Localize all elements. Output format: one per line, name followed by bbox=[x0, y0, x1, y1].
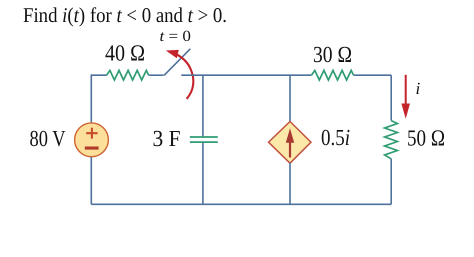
resistor R1 40-ohm bbox=[107, 70, 149, 80]
capacitor C1 3F plates bbox=[190, 136, 218, 138]
svg-text:30 Ω: 30 Ω bbox=[313, 42, 352, 67]
wire left side below source to bottom-left corner bbox=[90, 157, 92, 204]
wire capacitor branch bottom bbox=[202, 143, 204, 205]
current i arrow (red, downward) bbox=[405, 75, 407, 105]
svg-text:80 V: 80 V bbox=[30, 126, 66, 151]
wire from R1 to switch left contact bbox=[149, 74, 164, 76]
switch action red arc arrow bbox=[176, 54, 194, 99]
plus sign inside source bbox=[86, 128, 97, 139]
minus bar inside source bbox=[85, 147, 99, 150]
wire from R2 to top-right corner bbox=[354, 74, 392, 76]
bottom wire bbox=[91, 203, 391, 205]
svg-text:3 F: 3 F bbox=[153, 126, 181, 151]
wire top-left (node from source to 40-ohm) bbox=[91, 75, 106, 123]
switch blade (opens at t=0) bbox=[164, 49, 190, 76]
voltage source V1 80V circle bbox=[75, 123, 109, 157]
svg-text:50 Ω: 50 Ω bbox=[407, 126, 445, 151]
resistor R2 30-ohm bbox=[311, 70, 353, 80]
svg-text:i: i bbox=[416, 79, 421, 98]
svg-text:0.5i: 0.5i bbox=[321, 125, 350, 150]
arrow inside dependent source bbox=[289, 142, 291, 158]
resistor R3 50-ohm vertical bbox=[385, 121, 398, 159]
svg-text:t = 0: t = 0 bbox=[160, 28, 192, 45]
svg-text:Find i(t) for t < 0 and t > 0.: Find i(t) for t < 0 and t > 0. bbox=[23, 3, 227, 27]
wire right branch top bbox=[390, 75, 392, 120]
dependent current source diamond 0.5i bbox=[269, 122, 312, 164]
wire capacitor branch top bbox=[202, 75, 204, 136]
wire dependent source branch bottom bbox=[289, 163, 291, 205]
wire dependent source branch top bbox=[289, 75, 291, 122]
wire right branch bottom bbox=[390, 159, 392, 205]
svg-text:40 Ω: 40 Ω bbox=[105, 41, 145, 66]
wire from switch right contact across top to 30-ohm bbox=[181, 74, 311, 76]
